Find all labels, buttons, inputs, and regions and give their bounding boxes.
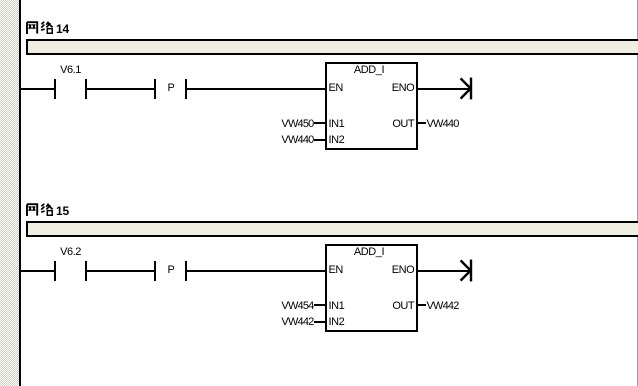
wire: P contact to ADD_I EN input <box>187 270 325 272</box>
label V6.2 <box>51 247 91 258</box>
pin OUT <box>392 119 414 130</box>
wire stub OUT <box>418 304 426 306</box>
wire stub IN2 <box>314 139 326 141</box>
op block ADD_I U14 box <box>325 62 418 150</box>
pin ENO <box>392 83 415 94</box>
network 14 header label "网络 14" <box>25 20 27 34</box>
operand VW440 at IN2 <box>281 135 313 146</box>
operand VW450 at IN1 <box>281 119 313 130</box>
wire: contact to P contact <box>87 88 155 90</box>
pin IN1 <box>329 119 345 130</box>
operand VW440 at OUT <box>427 119 459 130</box>
pin IN2 <box>329 317 345 328</box>
contact V6.1 (normally open) <box>0 0 638 1</box>
pin EN <box>329 83 343 94</box>
network 14 comment bar <box>26 39 638 55</box>
wire stub IN2 <box>314 321 326 323</box>
operand VW454 at IN1 <box>281 301 313 312</box>
pin ENO <box>392 265 415 276</box>
pin EN <box>329 265 343 276</box>
wire: ENO output <box>418 88 471 90</box>
wire: contact to P contact <box>87 270 155 272</box>
wire stub OUT <box>418 122 426 124</box>
wire: left rail to first contact <box>21 270 54 272</box>
operand VW442 at OUT <box>427 301 459 312</box>
label P <box>161 83 181 94</box>
left power rail <box>19 0 21 386</box>
label ADD_I title <box>325 65 413 76</box>
label P <box>161 265 181 276</box>
pin IN1 <box>329 301 345 312</box>
label ADD_I title <box>325 247 413 258</box>
right window edge line <box>637 0 638 386</box>
label V6.1 <box>51 65 91 76</box>
op block ADD_I U15 box <box>325 244 418 332</box>
contact V6.2 (normally open) <box>0 0 638 1</box>
left margin gutter (dithered) <box>0 0 19 386</box>
contact P (positive edge) <box>0 0 638 1</box>
pin IN2 <box>329 135 345 146</box>
network 15 comment bar <box>26 221 638 237</box>
contact P (positive edge) <box>0 0 638 1</box>
wire stub IN1 <box>314 304 326 306</box>
network 15 header label "网络 15" <box>25 202 27 216</box>
wire: left rail to first contact <box>21 88 54 90</box>
wire: P contact to ADD_I EN input <box>187 88 325 90</box>
pin OUT <box>392 301 414 312</box>
open arrow terminator <box>458 258 474 284</box>
wire: ENO output <box>418 270 471 272</box>
operand VW442 at IN2 <box>281 317 313 328</box>
open arrow terminator <box>458 76 474 102</box>
wire stub IN1 <box>314 122 326 124</box>
